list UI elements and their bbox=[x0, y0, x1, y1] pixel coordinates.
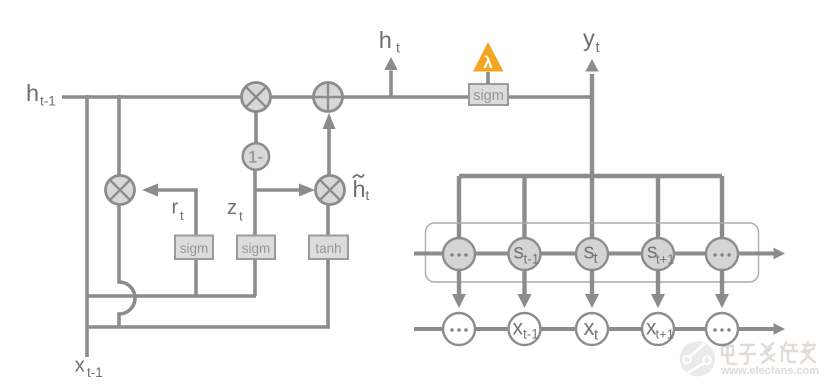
svg-text:1-: 1- bbox=[248, 148, 263, 167]
wire 1- to main multiplier bbox=[254, 111, 258, 144]
node s_t bbox=[576, 238, 608, 270]
svg-text:t-1: t-1 bbox=[87, 365, 103, 380]
svg-text:www.elecfans.com: www.elecfans.com bbox=[720, 365, 819, 377]
wire s row with arrow bbox=[414, 248, 785, 260]
svg-text:t+1: t+1 bbox=[656, 252, 674, 267]
svg-text:t: t bbox=[396, 40, 400, 56]
svg-text:t: t bbox=[366, 188, 370, 203]
wire V2 vertical with hop bbox=[119, 95, 135, 327]
node y_t label bbox=[583, 25, 600, 56]
wire x row with arrow bbox=[414, 323, 785, 335]
wire arrow y_t output bbox=[585, 59, 598, 240]
svg-text:t-1: t-1 bbox=[523, 327, 539, 342]
wire bus drop 1 bbox=[457, 176, 461, 240]
svg-text:x: x bbox=[584, 315, 595, 340]
watermark logo bbox=[680, 338, 715, 377]
node x_t bbox=[576, 313, 608, 345]
svg-text:t+1: t+1 bbox=[656, 327, 674, 342]
wire bus drop 5 bbox=[720, 176, 724, 240]
multiplier on main line bbox=[242, 83, 271, 112]
sigm box r bbox=[175, 236, 213, 260]
svg-text:sigm: sigm bbox=[180, 241, 209, 256]
svg-text:y: y bbox=[583, 25, 595, 51]
node x_t+1 bbox=[642, 313, 674, 345]
svg-text:sigm: sigm bbox=[473, 88, 504, 104]
node x_t-1 bbox=[509, 313, 541, 345]
node s_t-1 bbox=[509, 238, 541, 270]
node s dots left bbox=[443, 238, 475, 270]
wire sigm z stem down bbox=[253, 258, 257, 296]
svg-text:t-1: t-1 bbox=[40, 94, 56, 109]
wire down arrow col2 bbox=[518, 268, 532, 308]
wire main h line bbox=[62, 95, 592, 99]
wire arrow from sigm r to multiplier bbox=[142, 184, 196, 237]
svg-text:t-1: t-1 bbox=[524, 252, 540, 267]
wire sigm z stem up to 1- bbox=[253, 168, 257, 236]
multiplier h-tilde gate bbox=[316, 176, 345, 205]
wire down arrow col1 bbox=[452, 268, 466, 308]
watermark text bbox=[722, 342, 815, 364]
wire H2 horizontal to tanh bbox=[87, 325, 330, 329]
tanh box bbox=[309, 236, 348, 260]
node s dots right bbox=[706, 238, 738, 270]
wire arrow z to h-tilde multiplier bbox=[255, 184, 315, 197]
sigm box z bbox=[237, 236, 275, 260]
svg-text:s: s bbox=[514, 241, 525, 264]
wire down arrow col3 bbox=[585, 268, 599, 308]
svg-text:λ: λ bbox=[483, 53, 493, 72]
svg-text:t: t bbox=[596, 40, 600, 56]
node z_t label bbox=[227, 197, 243, 224]
wire arrow h-tilde mult up to adder bbox=[323, 113, 336, 176]
adder on main line bbox=[314, 83, 343, 112]
wire H1 horizontal to sigm gates bbox=[87, 294, 256, 298]
lambda triangle bbox=[473, 42, 504, 72]
svg-text:t: t bbox=[180, 208, 184, 223]
node h_t label bbox=[379, 27, 400, 56]
node 1- circle bbox=[243, 143, 269, 169]
multiplier r gate bbox=[106, 176, 135, 205]
svg-text:tanh: tanh bbox=[315, 241, 341, 256]
svg-text:sigm: sigm bbox=[242, 241, 271, 256]
wire down arrow col5 bbox=[715, 268, 729, 308]
node h_t-1 label bbox=[26, 80, 56, 109]
wire top bus bbox=[459, 174, 722, 178]
svg-text:r: r bbox=[172, 197, 179, 219]
svg-text:t: t bbox=[239, 209, 243, 224]
node x_t-1 label bbox=[75, 355, 103, 381]
svg-text:z: z bbox=[227, 197, 237, 219]
rounded rect hidden layer bbox=[426, 223, 759, 282]
svg-text:h: h bbox=[26, 80, 39, 106]
wire V1 x-input vertical bbox=[85, 95, 89, 357]
wire bus drop 2 bbox=[522, 176, 526, 240]
wire bus drop 4 bbox=[656, 176, 660, 240]
node x dots right bbox=[706, 313, 738, 345]
node x dots left bbox=[443, 313, 475, 345]
wire lambda stem bbox=[486, 72, 490, 84]
wire arrow h_t output bbox=[384, 57, 397, 96]
node s_t+1 bbox=[642, 238, 674, 270]
svg-text:h: h bbox=[353, 176, 366, 202]
wire down arrow col4 bbox=[651, 268, 665, 308]
node h-tilde label bbox=[353, 175, 370, 204]
node r_t label bbox=[172, 197, 185, 224]
svg-text:x: x bbox=[513, 317, 524, 340]
wire tanh stem down bbox=[326, 258, 330, 327]
svg-text:h: h bbox=[379, 27, 392, 53]
sigm box output bbox=[469, 84, 508, 105]
svg-text:x: x bbox=[75, 355, 85, 377]
wire tanh stem up bbox=[326, 205, 330, 237]
wire sigm r stem down bbox=[194, 258, 198, 296]
